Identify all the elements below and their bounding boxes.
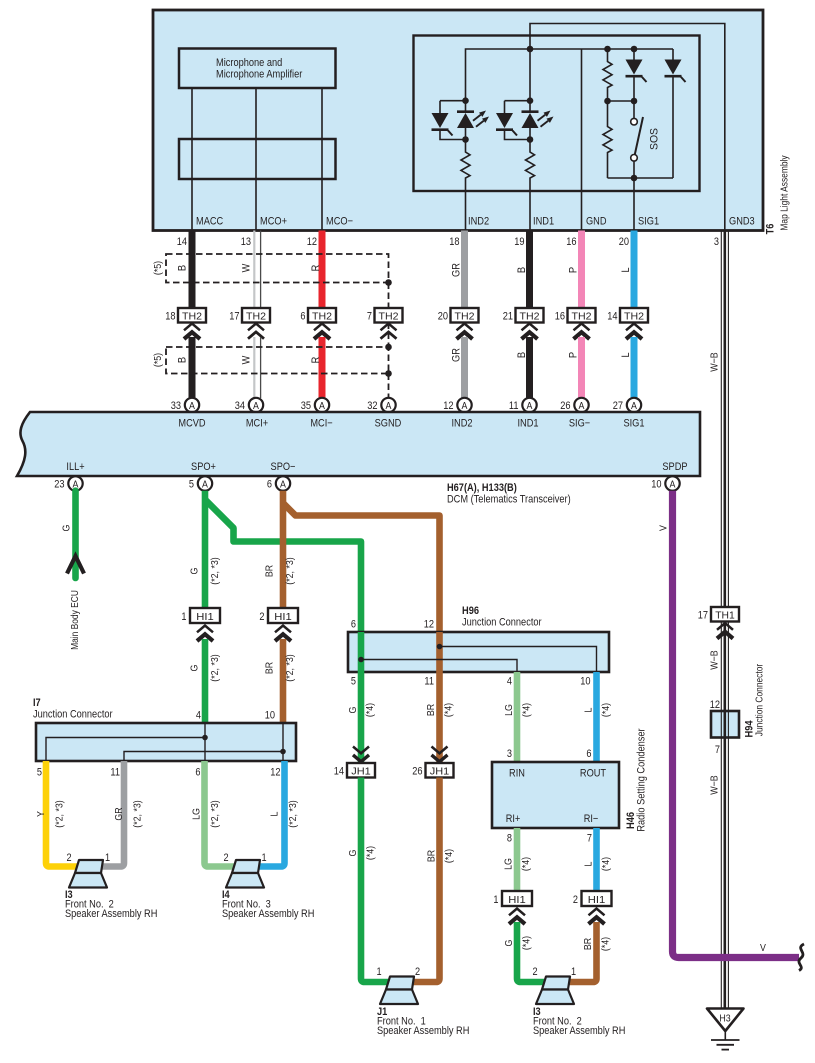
svg-text:18: 18 <box>449 236 459 248</box>
svg-text:(*2, *3): (*2, *3) <box>209 800 221 828</box>
svg-text:Map Light Assembly: Map Light Assembly <box>780 155 791 230</box>
wire SOS bottom bus <box>608 177 674 179</box>
svg-text:GR: GR <box>113 807 125 821</box>
svg-text:23: 23 <box>54 479 64 491</box>
wire MACC inside T6 <box>191 88 193 231</box>
wire B MACC to TH2 <box>189 231 196 309</box>
svg-text:JH1: JH1 <box>430 766 450 778</box>
svg-text:2: 2 <box>532 966 537 978</box>
wire MCO+ inside T6 <box>255 88 257 231</box>
svg-text:IND2: IND2 <box>468 216 489 228</box>
connector TH2 pin 6 <box>300 308 336 339</box>
svg-text:SIG1: SIG1 <box>623 418 644 430</box>
svg-text:10: 10 <box>651 479 661 491</box>
T6 Map Light Assembly box <box>153 10 763 231</box>
svg-text:17: 17 <box>229 311 239 323</box>
svg-text:A: A <box>319 401 325 412</box>
svg-text:LG: LG <box>503 858 515 870</box>
svg-text:26: 26 <box>412 766 422 778</box>
wire B TH2 to MCVD <box>189 337 196 398</box>
svg-text:TH2: TH2 <box>624 311 644 323</box>
pin 10 SPDP <box>651 476 680 490</box>
svg-text:5: 5 <box>189 479 194 491</box>
wire Y I7 to speaker I3 <box>46 761 78 867</box>
microphone amplifier box U1 <box>179 49 336 89</box>
wire W TH2 to MCI+ <box>253 337 255 398</box>
svg-text:6: 6 <box>351 619 356 631</box>
svg-text:2: 2 <box>415 966 420 978</box>
svg-text:B: B <box>177 357 189 363</box>
svg-text:L: L <box>583 861 595 866</box>
radio setting condenser H46 <box>492 728 648 844</box>
svg-text:Speaker Assembly RH: Speaker Assembly RH <box>222 908 314 920</box>
connector HI1 pin 1 lower <box>493 891 532 924</box>
shield box (*5) upper <box>166 254 389 283</box>
wire LG H96 to H46 RIN <box>514 672 521 762</box>
wire R TH2 to MCI- <box>319 337 326 398</box>
svg-text:12: 12 <box>270 767 280 779</box>
svg-text:27: 27 <box>613 400 623 412</box>
connector HI1 pin 2 lower <box>573 891 612 924</box>
node junction dots SOS <box>604 98 611 105</box>
svg-text:3: 3 <box>714 236 719 248</box>
svg-text:(*5): (*5) <box>152 261 164 275</box>
svg-text:G: G <box>347 850 359 857</box>
svg-text:26: 26 <box>560 400 570 412</box>
connector JH1 pin 26 <box>412 747 453 778</box>
svg-text:P: P <box>568 267 580 273</box>
svg-text:A: A <box>527 401 533 412</box>
svg-text:IND1: IND1 <box>517 418 538 430</box>
svg-text:7: 7 <box>715 744 720 756</box>
wire GND to pin 16 <box>581 49 583 231</box>
svg-text:LG: LG <box>191 808 203 820</box>
svg-text:IND1: IND1 <box>533 216 554 228</box>
svg-text:G: G <box>189 665 201 672</box>
svg-text:HI1: HI1 <box>588 894 606 906</box>
svg-text:A: A <box>579 401 585 412</box>
svg-text:Junction Connector: Junction Connector <box>755 663 766 736</box>
svg-text:2: 2 <box>223 852 228 864</box>
svg-text:L: L <box>269 811 281 816</box>
svg-text:BR: BR <box>264 662 276 675</box>
svg-text:MCVD: MCVD <box>178 418 205 430</box>
wire LG H46 to HI1 <box>514 828 521 891</box>
svg-text:21: 21 <box>503 311 513 323</box>
LED pair D1 (IND2) <box>432 97 490 142</box>
svg-text:1: 1 <box>376 966 381 978</box>
svg-text:(*4): (*4) <box>521 936 533 950</box>
svg-text:4: 4 <box>196 710 201 722</box>
svg-text:(*2, *3): (*2, *3) <box>284 654 296 682</box>
wire L H46 to HI1 <box>593 828 600 891</box>
svg-text:32: 32 <box>367 400 377 412</box>
pin 35 MCI- <box>301 398 329 412</box>
svg-text:35: 35 <box>301 400 311 412</box>
svg-text:GR: GR <box>451 348 463 362</box>
svg-text:(*4): (*4) <box>443 849 455 863</box>
svg-text:5: 5 <box>351 676 356 688</box>
pin 12 IND2 <box>443 398 471 412</box>
svg-text:SPO−: SPO− <box>271 461 296 473</box>
wire G HI1 to I7 <box>202 639 209 723</box>
pin 27 SIG1 <box>613 398 642 412</box>
wire G SPO+ trunk <box>202 491 209 608</box>
wire G ILL+ to Main Body ECU <box>72 491 79 578</box>
svg-text:BR: BR <box>582 938 594 951</box>
connector TH2 pin 14 <box>607 308 648 339</box>
wire MCO- inside T6 <box>321 88 323 231</box>
svg-text:(*4): (*4) <box>600 937 612 951</box>
svg-text:12: 12 <box>307 236 317 248</box>
svg-text:TH2: TH2 <box>182 311 202 323</box>
wire G JH1 to speaker J1 <box>361 778 390 983</box>
svg-text:BR: BR <box>426 850 438 863</box>
svg-text:L: L <box>620 267 632 272</box>
svg-text:4: 4 <box>507 676 512 688</box>
switch SOS <box>631 101 661 178</box>
wire L I7 to speaker I4 <box>256 761 285 867</box>
svg-text:L: L <box>583 707 595 712</box>
wire W MCO+ to TH2 <box>253 231 255 309</box>
svg-text:16: 16 <box>555 311 565 323</box>
svg-text:(*4): (*4) <box>600 857 612 871</box>
resistor R4 (SOS lower) <box>603 101 612 178</box>
wire BR HI1 to I7 <box>280 639 287 723</box>
connector JH1 pin 14 <box>334 747 375 778</box>
pin 32 SGND <box>367 398 395 412</box>
svg-text:18: 18 <box>165 311 175 323</box>
svg-text:R: R <box>310 357 322 364</box>
svg-text:19: 19 <box>514 236 524 248</box>
svg-text:(*4): (*4) <box>521 703 533 717</box>
svg-text:B: B <box>177 265 189 271</box>
svg-text:RI+: RI+ <box>506 813 521 825</box>
svg-text:SGND: SGND <box>375 418 402 430</box>
svg-text:HI1: HI1 <box>508 894 526 906</box>
svg-text:W−B: W−B <box>709 352 721 371</box>
I7 internal wires <box>46 723 283 761</box>
svg-text:GR: GR <box>451 263 463 277</box>
svg-text:11: 11 <box>424 676 434 688</box>
svg-text:SOS: SOS <box>649 128 661 150</box>
svg-text:(*4): (*4) <box>443 703 455 717</box>
pin 23 ILL+ <box>54 476 83 490</box>
svg-text:GND: GND <box>586 216 607 228</box>
svg-text:V: V <box>658 525 670 531</box>
speaker I3 front no.2 <box>69 860 107 888</box>
pin 26 SIG- <box>560 398 589 412</box>
connector TH2 pin 21 <box>503 308 544 339</box>
wire GND3 net inside T6 <box>530 24 725 231</box>
svg-text:3: 3 <box>507 748 512 760</box>
svg-text:H96: H96 <box>462 605 479 617</box>
svg-text:(*4): (*4) <box>364 703 376 717</box>
svg-text:JH1: JH1 <box>351 766 371 778</box>
H96 internal wires <box>361 660 517 673</box>
svg-text:IND2: IND2 <box>451 418 472 430</box>
junction connector H96 <box>348 605 609 672</box>
svg-text:2: 2 <box>573 894 578 906</box>
svg-text:(*2, *3): (*2, *3) <box>209 557 221 585</box>
svg-text:11: 11 <box>110 767 120 779</box>
wire W-B GND3 to ground H3 <box>720 231 722 1009</box>
wire BR H96 to JH1 <box>436 672 443 763</box>
wire GR IND2 to TH2 <box>461 231 468 309</box>
svg-text:(*4): (*4) <box>600 703 612 717</box>
svg-text:(*2, *3): (*2, *3) <box>287 800 299 828</box>
svg-text:20: 20 <box>619 236 629 248</box>
svg-text:7: 7 <box>367 311 372 323</box>
svg-text:MACC: MACC <box>196 216 223 228</box>
wire BR SPO- branch to H96 <box>283 503 440 632</box>
svg-text:P: P <box>568 352 580 358</box>
wire SIG1 to pin 20 <box>633 178 635 231</box>
svg-text:G: G <box>347 707 359 714</box>
svg-text:A: A <box>386 401 392 412</box>
svg-text:(*4): (*4) <box>365 846 377 860</box>
svg-text:W: W <box>241 355 253 364</box>
connector HI1 pin 1 upper <box>181 608 220 641</box>
pin 11 IND1 <box>509 398 537 412</box>
connector TH2 pin 20 <box>438 308 479 339</box>
resistor R1 (IND2) <box>461 140 470 192</box>
connector TH1 pin 17 <box>698 607 739 639</box>
diode D4 (right branch) <box>665 49 686 178</box>
svg-text:W−B: W−B <box>709 775 721 794</box>
svg-text:6: 6 <box>300 311 305 323</box>
wire GR I7 to speaker I3 <box>100 761 124 867</box>
pin 6 SPO- <box>267 476 290 490</box>
svg-text:T6: T6 <box>765 224 777 235</box>
wire L SIG1 to TH2 <box>631 231 638 309</box>
svg-text:12: 12 <box>443 400 453 412</box>
wire IND2 to pin 18 <box>465 191 467 231</box>
speaker I4 front no.3 <box>226 860 264 888</box>
svg-text:V: V <box>760 942 766 954</box>
svg-text:H3: H3 <box>719 1013 730 1025</box>
svg-text:11: 11 <box>509 400 519 412</box>
svg-text:SPDP: SPDP <box>662 461 687 473</box>
wire G H96 to JH1 <box>358 672 365 763</box>
svg-text:Microphone Amplifier: Microphone Amplifier <box>216 69 303 81</box>
svg-text:HI1: HI1 <box>196 611 214 623</box>
svg-text:10: 10 <box>265 710 275 722</box>
svg-text:A: A <box>670 479 676 490</box>
svg-text:5: 5 <box>37 767 42 779</box>
svg-text:14: 14 <box>607 311 617 323</box>
svg-text:TH1: TH1 <box>715 610 735 622</box>
svg-text:A: A <box>631 401 637 412</box>
svg-text:34: 34 <box>235 400 245 412</box>
svg-text:1: 1 <box>571 966 576 978</box>
svg-text:33: 33 <box>171 400 181 412</box>
map light inner circuit box <box>414 36 700 192</box>
svg-text:TH2: TH2 <box>572 311 592 323</box>
wire B IND1 to TH2 <box>526 231 533 309</box>
svg-text:MCI+: MCI+ <box>246 418 268 430</box>
wire BR SPO- trunk <box>280 491 287 608</box>
wire B TH2 to IND1 <box>526 337 533 398</box>
svg-text:16: 16 <box>566 236 576 248</box>
svg-text:L: L <box>620 352 632 357</box>
svg-text:7: 7 <box>587 833 592 845</box>
wire top bus inside circuit box <box>466 49 674 101</box>
svg-text:SPO+: SPO+ <box>191 461 216 473</box>
diode D3 (SIG1 branch) <box>626 49 647 101</box>
svg-text:2: 2 <box>66 852 71 864</box>
svg-text:RI−: RI− <box>584 813 599 825</box>
svg-text:Speaker Assembly RH: Speaker Assembly RH <box>377 1025 469 1037</box>
svg-text:MCO+: MCO+ <box>260 216 287 228</box>
svg-text:6: 6 <box>586 748 591 760</box>
svg-text:G: G <box>61 525 73 532</box>
pin 5 SPO+ <box>189 476 212 490</box>
wire R MCO- to TH2 <box>319 231 326 309</box>
node junction dots top bus <box>527 46 534 53</box>
pin 33 MCVD <box>171 398 200 412</box>
wire LG I7 to speaker I4 <box>205 761 237 867</box>
svg-text:G: G <box>503 940 515 947</box>
svg-text:H67(A), H133(B): H67(A), H133(B) <box>447 482 517 494</box>
shield drain wire to TH2 7 <box>388 283 390 309</box>
wire BR HI1 to speaker I3 <box>566 922 597 982</box>
svg-text:TH2: TH2 <box>246 311 266 323</box>
svg-text:BR: BR <box>264 565 276 578</box>
svg-text:SIG−: SIG− <box>569 418 590 430</box>
svg-text:Microphone and: Microphone and <box>216 57 282 69</box>
svg-text:1: 1 <box>181 611 186 623</box>
svg-text:14: 14 <box>334 766 344 778</box>
wire break squiggle <box>799 944 804 971</box>
svg-text:Junction Connector: Junction Connector <box>462 617 542 629</box>
wire G through H96 <box>358 632 365 672</box>
wire GR TH2 to IND2 <box>461 337 468 398</box>
svg-text:12: 12 <box>424 619 434 631</box>
svg-text:W−B: W−B <box>709 650 721 669</box>
svg-text:RIN: RIN <box>509 768 525 780</box>
svg-text:TH2: TH2 <box>520 311 540 323</box>
microphone inner box <box>179 139 336 179</box>
svg-text:(*4): (*4) <box>520 857 532 871</box>
svg-text:DCM (Telematics Transceiver): DCM (Telematics Transceiver) <box>447 494 571 506</box>
svg-text:B: B <box>516 352 528 358</box>
svg-text:2: 2 <box>259 611 264 623</box>
svg-text:Speaker Assembly RH: Speaker Assembly RH <box>65 908 157 920</box>
svg-text:Speaker Assembly RH: Speaker Assembly RH <box>533 1025 625 1037</box>
svg-text:SIG1: SIG1 <box>638 216 659 228</box>
resistor R3 (SOS upper) <box>603 49 612 101</box>
svg-text:6: 6 <box>267 479 272 491</box>
svg-text:A: A <box>189 401 195 412</box>
svg-text:1: 1 <box>105 852 110 864</box>
wire BR JH1 to speaker J1 <box>410 778 440 983</box>
svg-text:A: A <box>253 401 259 412</box>
svg-text:6: 6 <box>195 767 200 779</box>
svg-text:14: 14 <box>177 236 187 248</box>
svg-text:13: 13 <box>241 236 251 248</box>
svg-text:I7: I7 <box>33 697 41 709</box>
svg-text:G: G <box>189 568 201 575</box>
speaker J1 front no.1 <box>380 977 418 1005</box>
svg-text:12: 12 <box>710 699 720 711</box>
wire G HI1 to speaker I3 <box>517 922 546 982</box>
resistor R2 (IND1) <box>526 140 535 192</box>
svg-text:TH2: TH2 <box>312 311 332 323</box>
svg-text:(*2, *3): (*2, *3) <box>209 654 221 682</box>
svg-text:A: A <box>202 479 208 490</box>
junction connector I7 <box>36 723 296 761</box>
svg-text:HI1: HI1 <box>274 611 292 623</box>
shield box (*5) lower <box>166 347 389 374</box>
ground H3 <box>707 1009 744 1050</box>
wire L H96 to H46 ROUT <box>593 672 600 762</box>
svg-text:Junction Connector: Junction Connector <box>33 709 113 721</box>
svg-text:ROUT: ROUT <box>580 768 606 780</box>
speaker I3 front no.2 lower <box>536 977 574 1005</box>
connector TH2 pin 18 <box>165 308 206 339</box>
wire P TH2 to SIG- <box>578 337 585 398</box>
connector TH2 pin 7 <box>367 308 403 339</box>
pin 34 MCI+ <box>235 398 264 412</box>
svg-text:MCI−: MCI− <box>310 418 332 430</box>
wire IND1 to pin 19 <box>529 191 531 231</box>
svg-text:B: B <box>516 267 528 273</box>
wire V SPDP <box>673 491 800 958</box>
svg-text:(*2, *3): (*2, *3) <box>54 800 66 828</box>
svg-text:Radio Setting Condenser: Radio Setting Condenser <box>636 728 648 832</box>
connector TH2 pin 16 <box>555 308 596 339</box>
svg-text:GND3: GND3 <box>729 216 755 228</box>
svg-text:TH2: TH2 <box>379 311 399 323</box>
DCM H67 H133 box <box>17 412 700 476</box>
svg-text:LG: LG <box>503 704 515 716</box>
svg-text:A: A <box>280 479 286 490</box>
svg-text:Main Body ECU: Main Body ECU <box>70 590 81 650</box>
svg-text:10: 10 <box>580 676 590 688</box>
wire L TH2 to SIG1 <box>631 337 638 398</box>
connector HI1 pin 2 upper <box>259 608 298 641</box>
svg-text:W: W <box>241 263 253 272</box>
svg-text:(*2, *3): (*2, *3) <box>132 800 144 828</box>
shield wire TH2 to SGND <box>388 323 390 348</box>
svg-text:(*5): (*5) <box>152 353 164 367</box>
svg-text:BR: BR <box>425 704 437 717</box>
svg-text:8: 8 <box>507 833 512 845</box>
svg-text:TH2: TH2 <box>455 311 475 323</box>
svg-text:ILL+: ILL+ <box>66 461 84 473</box>
svg-text:(*2, *3): (*2, *3) <box>284 557 296 585</box>
svg-text:17: 17 <box>698 610 708 622</box>
svg-text:R: R <box>310 265 322 272</box>
svg-text:MCO−: MCO− <box>326 216 353 228</box>
svg-text:A: A <box>462 401 468 412</box>
wire G SPO+ branch to H96 <box>205 500 361 633</box>
svg-text:1: 1 <box>261 852 266 864</box>
svg-text:20: 20 <box>438 311 448 323</box>
svg-text:1: 1 <box>493 894 498 906</box>
connector TH2 pin 17 <box>229 308 270 339</box>
junction connector H94 <box>711 711 739 738</box>
wire P GND to TH2 <box>578 231 585 309</box>
LED pair D2 (IND1) <box>496 97 554 142</box>
wire BR through H96 <box>436 632 443 672</box>
svg-text:Y: Y <box>35 811 47 817</box>
